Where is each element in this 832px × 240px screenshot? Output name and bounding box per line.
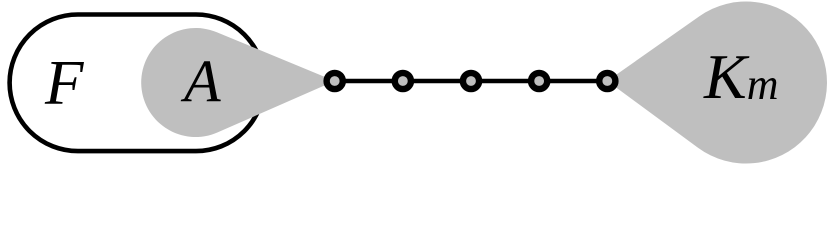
svg-text:F: F (44, 48, 84, 118)
svg-text:A: A (180, 49, 221, 115)
wire path edge 3 (471, 79, 539, 83)
node A (gray teardrop blob) (141, 28, 335, 137)
vertex v4 (531, 73, 547, 89)
vertex v2 (395, 73, 411, 89)
vertex v5 (599, 73, 615, 89)
node F (rounded box) (10, 15, 265, 152)
vertex v3 (463, 73, 479, 89)
vertex v1 (327, 73, 343, 89)
wire path edge 2 (403, 79, 471, 83)
wire path edge 1 (335, 79, 403, 83)
wire path edge 4 (539, 79, 607, 83)
node Km (gray teardrop blob) (607, 2, 827, 164)
